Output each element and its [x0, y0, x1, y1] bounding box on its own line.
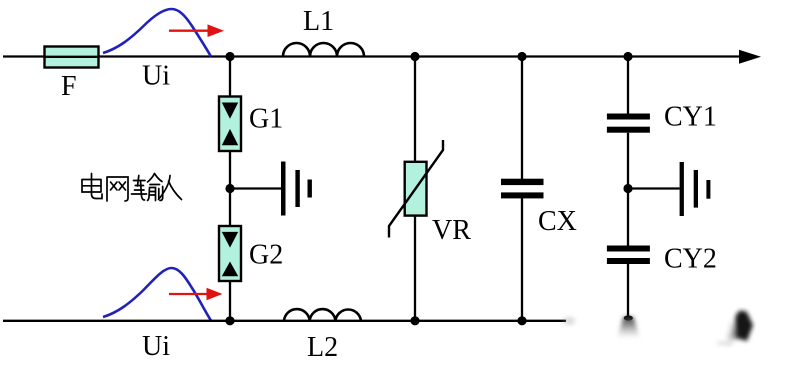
capacitor CY2	[607, 246, 650, 265]
arrow output (top right)	[739, 50, 761, 64]
svg-text:CY2: CY2	[664, 244, 717, 275]
node: top-left junction	[225, 52, 234, 61]
varistor VR	[389, 140, 443, 238]
ground symbol left	[281, 162, 312, 216]
svg-text:VR: VR	[432, 215, 471, 246]
svg-text:L1: L1	[303, 6, 334, 37]
inductor L1	[283, 43, 364, 56]
capacitor CY1	[607, 114, 650, 133]
svg-text:L2: L2	[307, 332, 338, 363]
svg-text:G2: G2	[249, 240, 283, 271]
surge waveform bottom	[103, 268, 211, 321]
网	[107, 177, 128, 201]
wire VR branch	[414, 57, 416, 321]
入	[159, 176, 182, 200]
wire to left ground	[230, 187, 281, 189]
fuse F	[44, 47, 99, 68]
gas discharge tube G2	[219, 226, 241, 281]
label grid input 电网输入	[82, 174, 182, 202]
电	[92, 174, 103, 199]
gas discharge tube G1	[219, 97, 241, 152]
svg-text:G1: G1	[249, 104, 283, 135]
wire bottom line	[3, 320, 566, 322]
watermark blob	[717, 311, 753, 347]
node: CY end tick	[624, 315, 633, 320]
node: bottom CX junction	[517, 316, 526, 325]
node: CY middle	[623, 184, 632, 193]
watermark fade at wire end	[563, 317, 575, 325]
node: G branch middle	[225, 184, 234, 193]
node: top VR junction	[410, 52, 419, 61]
surge waveform top	[103, 9, 211, 57]
wire: G branch vertical	[229, 57, 231, 322]
svg-text:Ui: Ui	[142, 331, 170, 362]
wire top line	[3, 55, 740, 57]
arrow surge direction bottom	[169, 288, 223, 300]
wire CX branch	[521, 57, 523, 321]
watermark smudge cone	[617, 317, 640, 339]
node: top CY junction	[623, 52, 632, 61]
输	[132, 176, 147, 201]
ground symbol right	[680, 162, 711, 216]
wire to right ground	[628, 187, 680, 189]
wire CY branch lower	[627, 264, 629, 317]
inductor L2	[284, 309, 361, 321]
svg-text:F: F	[61, 71, 77, 102]
node: bottom G junction	[225, 316, 234, 325]
svg-text:CX: CX	[538, 206, 577, 237]
svg-text:CY1: CY1	[664, 102, 717, 133]
svg-text:Ui: Ui	[142, 61, 170, 92]
node: top CX junction	[517, 52, 526, 61]
node: bottom VR junction	[410, 316, 419, 325]
wire CY branch middle	[627, 133, 629, 246]
capacitor CX	[501, 179, 544, 199]
wire CY branch upper	[627, 57, 629, 115]
arrow surge direction top	[169, 24, 224, 37]
